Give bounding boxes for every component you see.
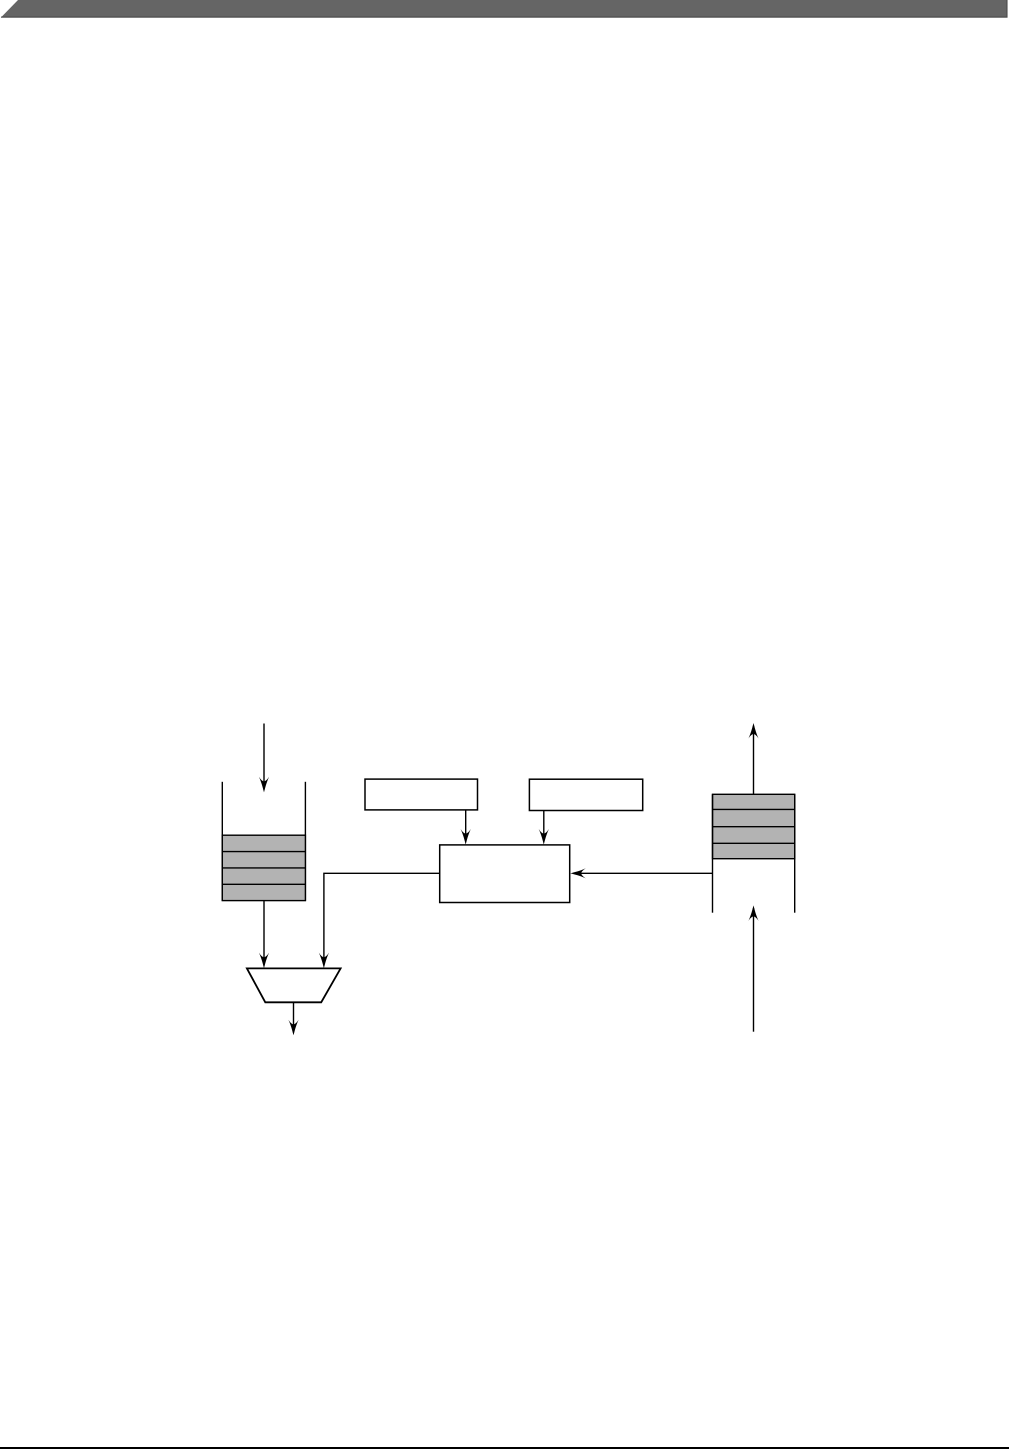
input queue outflow arrow into multiplexer [259, 901, 269, 969]
arrow from left control box into scheduler [461, 810, 471, 845]
input queue packet slots [222, 835, 305, 900]
output queue inflow arrow (bottom) [748, 905, 758, 1031]
control box left [365, 779, 478, 810]
output queue right wall [794, 794, 796, 912]
footer rule [0, 1447, 1009, 1449]
arrow from right control box into scheduler [539, 811, 549, 845]
wire from output queue into scheduler [570, 868, 712, 878]
top banner [1, 0, 1008, 18]
wire from scheduler to multiplexer [319, 873, 440, 968]
multiplexer output arrow [288, 1002, 298, 1035]
output queue outflow arrow (top) [748, 723, 758, 794]
output queue left wall [712, 794, 714, 912]
control box right [529, 779, 642, 810]
output queue packet slots [713, 794, 795, 858]
multiplexer trapezoid [247, 968, 341, 1002]
scheduler box [440, 845, 570, 903]
input queue left wall [221, 782, 223, 901]
input queue inflow arrow [259, 724, 269, 793]
input queue right wall [304, 782, 306, 901]
